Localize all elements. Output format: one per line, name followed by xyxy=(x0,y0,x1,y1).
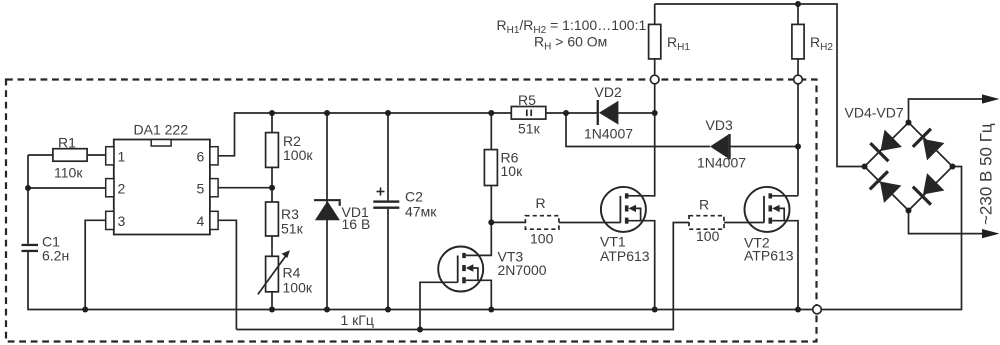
wire C2 top lead xyxy=(387,113,389,200)
node ground VT1 xyxy=(652,307,658,313)
svg-text:RH2: RH2 xyxy=(810,34,833,53)
bridge diode top-left xyxy=(869,129,902,162)
node R6 bottom xyxy=(488,219,494,225)
svg-text:R: R xyxy=(536,195,546,211)
wire C2 bottom lead xyxy=(387,209,389,310)
wire VD3 anode to RH2 column xyxy=(731,146,798,148)
svg-text:R1: R1 xyxy=(58,135,76,151)
node bridge right xyxy=(950,164,956,170)
svg-text:4: 4 xyxy=(197,213,205,229)
node R2 R3 pin5 xyxy=(269,185,275,191)
dashed gate resistor R near VT1 xyxy=(525,216,559,230)
svg-text:6.2н: 6.2н xyxy=(42,248,69,264)
node bridge bottom xyxy=(906,208,912,214)
svg-text:ATP613: ATP613 xyxy=(600,248,650,264)
transistor VT2 xyxy=(745,187,799,310)
svg-text:R4: R4 xyxy=(283,265,301,281)
svg-text:2: 2 xyxy=(118,181,126,197)
terminal RH2 xyxy=(794,75,803,84)
wire bridge top node to mains arrow xyxy=(909,99,984,123)
wire RH1 column xyxy=(654,4,656,113)
resistor R5 xyxy=(511,107,546,120)
wire main mid rail pin6 to VD2 xyxy=(218,113,597,156)
wire left column R1 to C1 xyxy=(27,155,29,244)
wire pin3 lead xyxy=(85,220,106,309)
wire VD2VD3 cathode bypass xyxy=(566,113,710,147)
node ground VT2 xyxy=(795,307,801,313)
mains arrow bottom xyxy=(982,229,1000,238)
op-amp timer IC DA1 xyxy=(106,140,218,235)
node rail R2 xyxy=(269,110,275,116)
wire RH2 column xyxy=(797,4,799,196)
svg-text:51к: 51к xyxy=(281,221,304,237)
wire pin4 to 1kHz line xyxy=(218,220,236,329)
wire top supply rail xyxy=(655,4,865,167)
svg-text:RH1: RH1 xyxy=(667,34,690,53)
node ground VT3 xyxy=(488,307,494,313)
svg-text:ATP613: ATP613 xyxy=(744,248,794,264)
wire dashed R2 to VT2 gate xyxy=(724,222,764,224)
svg-text:1N4007: 1N4007 xyxy=(584,126,633,142)
svg-text:100: 100 xyxy=(696,228,720,244)
dashed gate resistor R near VT2 xyxy=(689,216,724,230)
node rail VD2 cathode xyxy=(563,110,569,116)
capacitor C1 xyxy=(22,244,39,252)
svg-text:~230 В 50 Гц: ~230 В 50 Гц xyxy=(977,123,996,225)
resistor R1 xyxy=(53,149,87,162)
svg-text:6: 6 xyxy=(197,149,205,165)
node rail VD2 anode xyxy=(652,110,658,116)
svg-text:16 В: 16 В xyxy=(342,216,371,232)
wire R6 column xyxy=(490,113,492,222)
zener diode VD1 xyxy=(314,199,341,220)
svg-text:3: 3 xyxy=(118,213,126,229)
svg-text:100: 100 xyxy=(530,231,554,247)
resistor RH1 xyxy=(649,24,661,59)
wire node to dashed R left lead xyxy=(491,221,525,223)
svg-text:1: 1 xyxy=(118,149,126,165)
svg-text:DA1 222: DA1 222 xyxy=(134,122,189,138)
wire R1 left lead xyxy=(28,154,53,156)
resistor R3 xyxy=(266,202,279,236)
svg-text:100к: 100к xyxy=(283,280,313,296)
node rail R6 xyxy=(488,110,494,116)
diode VD2 xyxy=(597,100,619,125)
bridge diode bottom-right xyxy=(912,173,945,206)
node ground R4 xyxy=(269,307,275,313)
wire bottom ground rail xyxy=(28,167,962,310)
node rail VD1 xyxy=(324,110,330,116)
svg-text:VD2: VD2 xyxy=(595,84,622,100)
svg-text:47мк: 47мк xyxy=(405,204,437,220)
node rail C2 xyxy=(385,110,391,116)
node 1kHz VT3 gate xyxy=(417,327,423,333)
diode bridge VD4-VD7 frame xyxy=(865,123,953,211)
node VD3 RH2 xyxy=(795,144,801,150)
svg-text:R5: R5 xyxy=(518,92,536,108)
svg-text:R: R xyxy=(699,197,709,213)
svg-text:VD3: VD3 xyxy=(706,117,733,133)
svg-text:10к: 10к xyxy=(501,163,524,179)
node ground C2 xyxy=(385,307,391,313)
node bridge top xyxy=(906,120,912,126)
resistor R6 xyxy=(484,150,497,186)
diode VD3 xyxy=(710,134,731,159)
node ground VD1 xyxy=(324,307,330,313)
transistor VT3 xyxy=(420,222,491,329)
svg-text:C2: C2 xyxy=(405,189,423,205)
svg-text:1 кГц: 1 кГц xyxy=(341,312,374,328)
node pin2 C1 xyxy=(25,185,31,191)
svg-text:RH > 60 Ом: RH > 60 Ом xyxy=(534,34,607,53)
svg-text:5: 5 xyxy=(197,181,205,197)
svg-text:1N4007: 1N4007 xyxy=(697,155,746,171)
node bridge left xyxy=(862,164,868,170)
mains arrow top xyxy=(982,94,1000,103)
wire dashed R to VT1 gate xyxy=(559,222,621,224)
wire VD2 anode to node xyxy=(618,112,654,114)
svg-text:100к: 100к xyxy=(283,147,313,163)
node ground pin3 xyxy=(82,307,88,313)
terminal RH1 xyxy=(650,75,659,84)
bridge diode bottom-left xyxy=(869,170,902,203)
wire R2 R3 R4 column xyxy=(271,113,273,310)
wire 1kHz second line xyxy=(236,223,689,330)
resistor RH2 xyxy=(792,24,804,59)
wire bridge bottom node to mains arrow xyxy=(909,211,984,234)
resistor R2 xyxy=(266,133,279,168)
bridge diode top-right xyxy=(912,128,945,161)
node RH2 top xyxy=(795,1,801,7)
svg-text:51к: 51к xyxy=(518,121,541,137)
capacitor C2 xyxy=(373,200,399,209)
svg-text:VD4-VD7: VD4-VD7 xyxy=(845,105,904,121)
wire VD1 column xyxy=(326,113,328,310)
dashed enclosure border xyxy=(6,80,817,342)
wire R1 right lead to pin1 xyxy=(87,154,106,156)
terminal ground xyxy=(813,305,822,314)
transistor VT1 xyxy=(601,113,655,310)
svg-text:2N7000: 2N7000 xyxy=(498,262,547,278)
wire pin2 lead xyxy=(28,187,106,189)
svg-text:110к: 110к xyxy=(54,165,83,181)
variable resistor R4 xyxy=(258,254,288,295)
wire pin5 lead xyxy=(218,187,272,189)
